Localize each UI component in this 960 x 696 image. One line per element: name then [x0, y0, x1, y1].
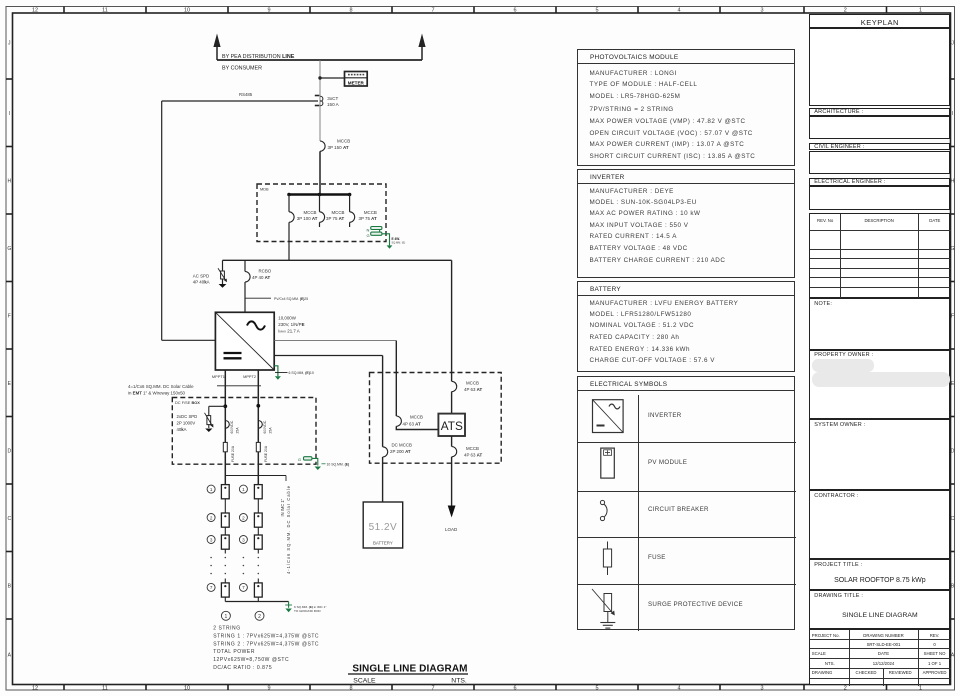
svg-text:3P 150 AT: 3P 150 AT — [328, 145, 349, 150]
svg-text:MCCB: MCCB — [332, 210, 345, 215]
svg-text:600VDC: 600VDC — [263, 420, 267, 433]
svg-text:D: D — [7, 448, 11, 454]
svg-text:7: 7 — [431, 685, 434, 691]
svg-text:PV/Cx4 SQ.MM. (E)25: PV/Cx4 SQ.MM. (E)25 — [274, 297, 308, 301]
svg-text:4P 40 AT: 4P 40 AT — [252, 275, 270, 280]
svg-text:1: 1 — [225, 614, 228, 620]
svg-text:E: E — [8, 381, 12, 387]
svg-text:11: 11 — [102, 8, 108, 14]
svg-text:2: 2 — [258, 614, 261, 620]
svg-text:5: 5 — [595, 8, 598, 14]
svg-text:2: 2 — [210, 515, 213, 520]
svg-text:MCCB: MCCB — [466, 381, 479, 386]
svg-text:3: 3 — [242, 537, 245, 542]
svg-text:DC MCCB: DC MCCB — [392, 442, 413, 447]
svg-text:4: 4 — [677, 685, 680, 691]
svg-text:6: 6 — [513, 8, 516, 14]
svg-text:MPPT1: MPPT1 — [212, 374, 225, 379]
svg-text:MCCB: MCCB — [410, 415, 423, 420]
svg-text:12: 12 — [32, 685, 38, 691]
svg-text:F: F — [951, 313, 954, 319]
svg-text:3: 3 — [760, 685, 763, 691]
svg-text:G: G — [298, 458, 301, 462]
svg-text:4P 63 AT: 4P 63 AT — [464, 452, 482, 457]
svg-text:7: 7 — [210, 585, 213, 590]
svg-text:AC SPD: AC SPD — [193, 273, 209, 278]
svg-text:600VDC: 600VDC — [230, 420, 234, 433]
svg-text:40kA: 40kA — [177, 427, 187, 432]
svg-text:G: G — [7, 246, 11, 252]
svg-text:H: H — [951, 178, 955, 184]
svg-text:MCCB: MCCB — [364, 210, 377, 215]
svg-text:25A: 25A — [269, 427, 273, 434]
svg-text:DC/AC RATIO : 0.875: DC/AC RATIO : 0.875 — [213, 665, 272, 671]
svg-text:N: N — [367, 228, 370, 233]
svg-text:230V, 1/N/PE: 230V, 1/N/PE — [278, 322, 304, 327]
svg-text:METER: METER — [348, 80, 365, 85]
svg-text:RCBO: RCBO — [259, 268, 272, 273]
svg-text:C: C — [7, 516, 11, 522]
svg-text:9: 9 — [267, 8, 270, 14]
svg-text:IN IMC 1": IN IMC 1" — [280, 498, 285, 516]
svg-text:6 SQ.MM, (E)10: 6 SQ.MM, (E)10 — [289, 371, 314, 375]
svg-text:I: I — [952, 111, 953, 117]
svg-text:4=1/Cx6 SQ.MM. DC Solar Cable: 4=1/Cx6 SQ.MM. DC Solar Cable — [128, 384, 194, 389]
svg-text:12PVx625W=8,750W @STC: 12PVx625W=8,750W @STC — [213, 657, 289, 663]
svg-text:RS485: RS485 — [239, 92, 253, 97]
svg-text:BATTERY: BATTERY — [373, 541, 393, 546]
svg-text:MPPT2: MPPT2 — [243, 374, 256, 379]
svg-text:12: 12 — [32, 8, 38, 14]
svg-text:4P 63 AT: 4P 63 AT — [464, 387, 482, 392]
svg-text:3P 75 AT: 3P 75 AT — [326, 216, 344, 221]
svg-text:1: 1 — [919, 685, 922, 691]
svg-text:25A: 25A — [236, 427, 240, 434]
svg-text:4-1/Cx6 SQ.MM. DC Solar Cable: 4-1/Cx6 SQ.MM. DC Solar Cable — [286, 485, 291, 574]
svg-text:MCCB: MCCB — [304, 210, 317, 215]
svg-text:7: 7 — [431, 8, 434, 14]
svg-text:SQ.MM. (E): SQ.MM. (E) — [392, 241, 406, 245]
svg-text:H: H — [7, 178, 11, 184]
svg-text:2P 200 AT: 2P 200 AT — [390, 449, 411, 454]
svg-text:B: B — [8, 583, 12, 589]
svg-text:SCALE: SCALE — [353, 677, 376, 684]
svg-text:4P 40kA: 4P 40kA — [193, 279, 210, 284]
svg-text:7: 7 — [242, 585, 245, 590]
svg-text:10,000W: 10,000W — [278, 316, 296, 321]
svg-text:J: J — [8, 41, 11, 47]
svg-text:10: 10 — [184, 685, 190, 691]
svg-text:4P 63 AT: 4P 63 AT — [403, 421, 421, 426]
svg-text:2P 1000V: 2P 1000V — [177, 420, 196, 425]
svg-text:3: 3 — [210, 537, 213, 542]
svg-text:I: I — [9, 111, 10, 117]
svg-text:9: 9 — [267, 685, 270, 691]
svg-text:4: 4 — [677, 8, 680, 14]
svg-text:6: 6 — [513, 685, 516, 691]
svg-text:2 STRING: 2 STRING — [213, 626, 240, 632]
svg-text:5: 5 — [595, 685, 598, 691]
svg-text:SINGLE LINE DIAGRAM: SINGLE LINE DIAGRAM — [352, 663, 467, 674]
svg-text:DC F/SE BOX: DC F/SE BOX — [175, 400, 200, 405]
svg-text:NTS.: NTS. — [451, 677, 467, 684]
svg-text:LOAD: LOAD — [445, 527, 458, 532]
svg-text:MCCB: MCCB — [337, 139, 350, 144]
svg-text:3xCT: 3xCT — [327, 96, 338, 101]
svg-text:3P 100 AT: 3P 100 AT — [297, 216, 318, 221]
svg-text:2: 2 — [242, 515, 245, 520]
svg-text:1: 1 — [919, 8, 922, 14]
svg-text:TO GROUND ROD: TO GROUND ROD — [294, 609, 321, 613]
svg-text:E 4W.: E 4W. — [392, 237, 401, 241]
svg-text:FUSE 20A: FUSE 20A — [231, 445, 235, 462]
svg-text:2: 2 — [844, 8, 847, 14]
svg-text:3: 3 — [760, 8, 763, 14]
svg-text:MDB: MDB — [260, 187, 269, 192]
svg-text:IMAX 21.7 A: IMAX 21.7 A — [278, 329, 299, 334]
svg-text:in EMT 1" & Wireway 150x50: in EMT 1" & Wireway 150x50 — [128, 391, 186, 396]
svg-text:1: 1 — [242, 487, 245, 492]
svg-text:10: 10 — [184, 8, 190, 14]
svg-text:TOTAL POWER: TOTAL POWER — [213, 649, 255, 655]
svg-text:3P 75 AT: 3P 75 AT — [359, 216, 377, 221]
svg-text:A: A — [8, 653, 12, 659]
svg-text:8: 8 — [349, 8, 352, 14]
svg-text:8: 8 — [349, 685, 352, 691]
svg-text:G: G — [367, 233, 370, 238]
svg-text:2xDC SPD: 2xDC SPD — [177, 414, 198, 419]
svg-text:F: F — [8, 313, 11, 319]
svg-text:MCCB: MCCB — [466, 446, 479, 451]
svg-text:2: 2 — [844, 685, 847, 691]
svg-text:FUSE 20A: FUSE 20A — [264, 445, 268, 462]
svg-text:J: J — [951, 41, 954, 47]
svg-text:STRING 2 : 7PVx625W=4,375W @ST: STRING 2 : 7PVx625W=4,375W @STC — [213, 641, 319, 647]
svg-text:150 A: 150 A — [327, 102, 340, 107]
svg-text:10 SQ.MM. (E): 10 SQ.MM. (E) — [327, 463, 350, 467]
svg-text:BY PEA DISTRIBUTION LINE: BY PEA DISTRIBUTION LINE — [222, 54, 295, 60]
svg-text:11: 11 — [102, 685, 108, 691]
svg-text:51.2V: 51.2V — [369, 522, 398, 533]
svg-text:D: D — [951, 448, 955, 454]
svg-text:C: C — [951, 516, 955, 522]
svg-text:BY CONSUMER: BY CONSUMER — [222, 66, 262, 72]
svg-text:STRING 1 : 7PVx625W=4,375W @ST: STRING 1 : 7PVx625W=4,375W @STC — [213, 633, 319, 639]
svg-text:ATS: ATS — [441, 419, 463, 433]
svg-text:1: 1 — [210, 487, 213, 492]
